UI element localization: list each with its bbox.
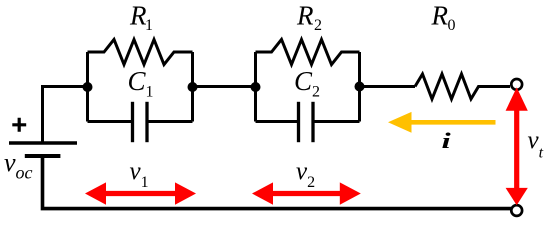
svg-text:R2: R2 [296, 1, 322, 34]
capacitor C2 right plate [311, 102, 314, 142]
svg-text:C1: C1 [128, 66, 154, 100]
R1 parallel branch left vertical wire [86, 52, 89, 122]
svg-text:v1: v1 [130, 158, 149, 191]
C2 bottom branch wires [256, 120, 360, 123]
R2 parallel branch right vertical wire [358, 52, 361, 122]
resistor R1 zigzag [88, 40, 193, 65]
node dot at R2 left [251, 82, 261, 92]
svg-text:i: i [442, 129, 451, 153]
C1 bottom branch wires [88, 120, 193, 123]
svg-text:C2: C2 [294, 66, 320, 100]
terminal circle top [511, 79, 522, 90]
orange current arrow i [388, 112, 496, 133]
node dot A [83, 82, 93, 92]
wire: node C to R0 [360, 85, 416, 88]
svg-text:R1: R1 [129, 1, 153, 34]
wire: node B between R1C1 and R2C2 [193, 85, 256, 88]
R2 parallel branch left vertical wire [254, 52, 257, 122]
wire: battery top lead to node A [43, 87, 88, 142]
node dot at R2 right [355, 82, 365, 92]
wire: battery bottom lead and bottom rail [43, 158, 513, 209]
terminal circle bottom [511, 205, 522, 216]
red double arrow v2 [252, 182, 361, 204]
node dot at R1 right [188, 82, 198, 92]
red double arrow v1 [85, 182, 196, 204]
resistor R2 zigzag [256, 40, 360, 65]
capacitor C2 left plate [297, 102, 300, 142]
svg-text:R0: R0 [431, 1, 456, 34]
resistor R0 zigzag [415, 74, 510, 99]
capacitor C1 left plate [131, 102, 134, 142]
red double arrow vt [506, 87, 528, 205]
battery Voc long positive plate [9, 141, 77, 144]
plus sign of battery [12, 118, 26, 132]
capacitor C1 right plate [145, 102, 148, 142]
R1 parallel branch right vertical wire [191, 52, 194, 122]
svg-text:vt: vt [528, 127, 544, 161]
svg-text:v2: v2 [296, 158, 315, 191]
battery Voc short negative plate [25, 154, 61, 158]
svg-text:voc: voc [4, 148, 33, 183]
